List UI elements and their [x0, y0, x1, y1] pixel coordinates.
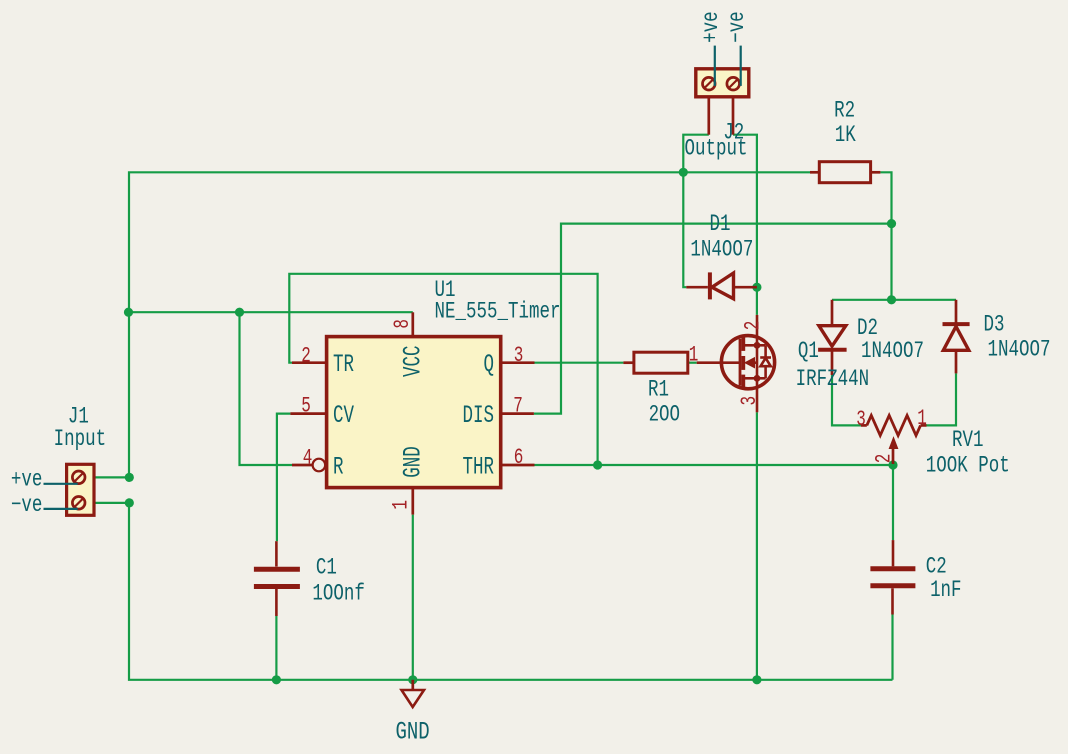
svg-text:−ve: −ve [725, 11, 751, 42]
wire R1 to gate [688, 362, 697, 364]
wire C2 bottom [891, 615, 893, 680]
junction J1 plus [125, 473, 134, 482]
svg-text:+ve: +ve [11, 468, 42, 494]
svg-text:2: 2 [871, 454, 896, 464]
wire THR rail [535, 464, 894, 466]
label line +ve J2 [714, 46, 716, 86]
svg-text:1: 1 [689, 342, 699, 367]
svg-text:C1: C1 [316, 556, 337, 582]
wire vcc rail [129, 311, 413, 313]
wire wiper to C2 [892, 465, 894, 540]
svg-text:GND: GND [399, 446, 428, 477]
wire C1 bottom [275, 616, 277, 680]
resistor R2 [810, 162, 880, 183]
svg-text:D1: D1 [710, 212, 731, 238]
svg-text:6: 6 [514, 445, 524, 470]
connector J2 [696, 69, 749, 135]
svg-text:2: 2 [740, 321, 765, 331]
capacitor C2 [870, 540, 915, 614]
svg-text:GND: GND [396, 718, 430, 746]
svg-text:THR: THR [463, 452, 494, 481]
svg-text:Q: Q [483, 350, 494, 379]
wire DIS branch [534, 224, 892, 414]
svg-text:1nF: 1nF [930, 578, 961, 604]
junction THR mid [593, 460, 602, 469]
svg-text:R1: R1 [648, 378, 669, 404]
wire J2 pin2 down [733, 135, 757, 315]
op-amp U1 555 timer box [290, 312, 534, 514]
svg-text:+ve: +ve [699, 11, 725, 42]
capacitor C1 [254, 541, 300, 616]
wire GND pin down [412, 515, 414, 680]
svg-text:Input: Input [54, 427, 106, 453]
wire R2 right [880, 172, 891, 299]
svg-text:IRFZ44N: IRFZ44N [796, 367, 869, 393]
junction C1 bottom [272, 675, 281, 684]
svg-text:1N4OO7: 1N4OO7 [861, 339, 924, 365]
svg-text:2: 2 [301, 343, 311, 368]
junction gnd bottom [408, 675, 417, 684]
label line -ve J2 [740, 46, 742, 86]
svg-text:−ve: −ve [11, 493, 42, 519]
ground [402, 680, 425, 707]
wire top rail [129, 172, 810, 477]
wire J1 pin2 [79, 502, 129, 504]
svg-text:1N4OO7: 1N4OO7 [690, 238, 753, 264]
junction output rail [679, 168, 688, 177]
svg-text:DIS: DIS [463, 401, 494, 430]
wire J1 pin1 [79, 476, 129, 478]
svg-text:C2: C2 [926, 555, 947, 581]
svg-text:1OOnf: 1OOnf [312, 581, 364, 607]
label line +ve J1 [44, 483, 78, 485]
svg-text:7: 7 [513, 393, 523, 418]
svg-text:1OOK Pot: 1OOK Pot [926, 454, 1010, 480]
svg-text:1: 1 [388, 500, 413, 510]
svg-text:NE_555_Timer: NE_555_Timer [435, 300, 561, 326]
svg-text:2OO: 2OO [649, 403, 680, 429]
svg-text:R2: R2 [834, 99, 855, 125]
wire CV branch [277, 414, 291, 542]
diode D1 [686, 272, 757, 299]
svg-text:TR: TR [333, 350, 354, 379]
connector J1 [67, 464, 94, 515]
wire D3 bottom [927, 373, 957, 425]
junction J1 minus [125, 498, 134, 507]
svg-text:3: 3 [856, 406, 866, 431]
potentiometer RV1 [861, 415, 927, 464]
wire Q to R1 [535, 362, 624, 364]
svg-text:3: 3 [736, 396, 761, 406]
junction vcc left [124, 308, 133, 317]
junction source bottom [752, 675, 761, 684]
wire J2 pin1 down [683, 135, 709, 288]
junction D2D3 bar [887, 295, 896, 304]
junction reset drop [235, 308, 244, 317]
wire reset branch [240, 312, 293, 465]
svg-text:5: 5 [301, 393, 311, 418]
svg-text:Output: Output [685, 137, 748, 163]
svg-text:RV1: RV1 [952, 428, 983, 454]
svg-text:4: 4 [303, 445, 313, 470]
junction D1 right [752, 283, 761, 292]
svg-text:8: 8 [389, 319, 414, 329]
svg-text:3: 3 [514, 342, 524, 367]
svg-text:Q1: Q1 [798, 339, 819, 365]
wire D2 bottom [832, 375, 861, 425]
resistor R1 [623, 352, 687, 373]
wire D2 D3 top bar [832, 299, 956, 301]
svg-text:1: 1 [917, 405, 927, 430]
junction wiper [888, 460, 897, 469]
transistor Q1 mosfet [697, 315, 775, 412]
label line -ve J1 [44, 508, 78, 510]
svg-text:1K: 1K [835, 123, 857, 149]
wire mosfet source down [756, 412, 758, 680]
wire left bottom vertical [129, 503, 893, 680]
diode D2 [818, 300, 847, 375]
wire TR branch [289, 274, 597, 465]
diode D3 [943, 300, 970, 374]
svg-text:VCC: VCC [399, 345, 428, 376]
svg-text:CV: CV [333, 401, 354, 430]
svg-text:1N4OO7: 1N4OO7 [988, 338, 1051, 364]
junction dis rail R2 [887, 219, 896, 228]
svg-text:D3: D3 [984, 313, 1005, 339]
svg-text:R: R [333, 452, 344, 481]
